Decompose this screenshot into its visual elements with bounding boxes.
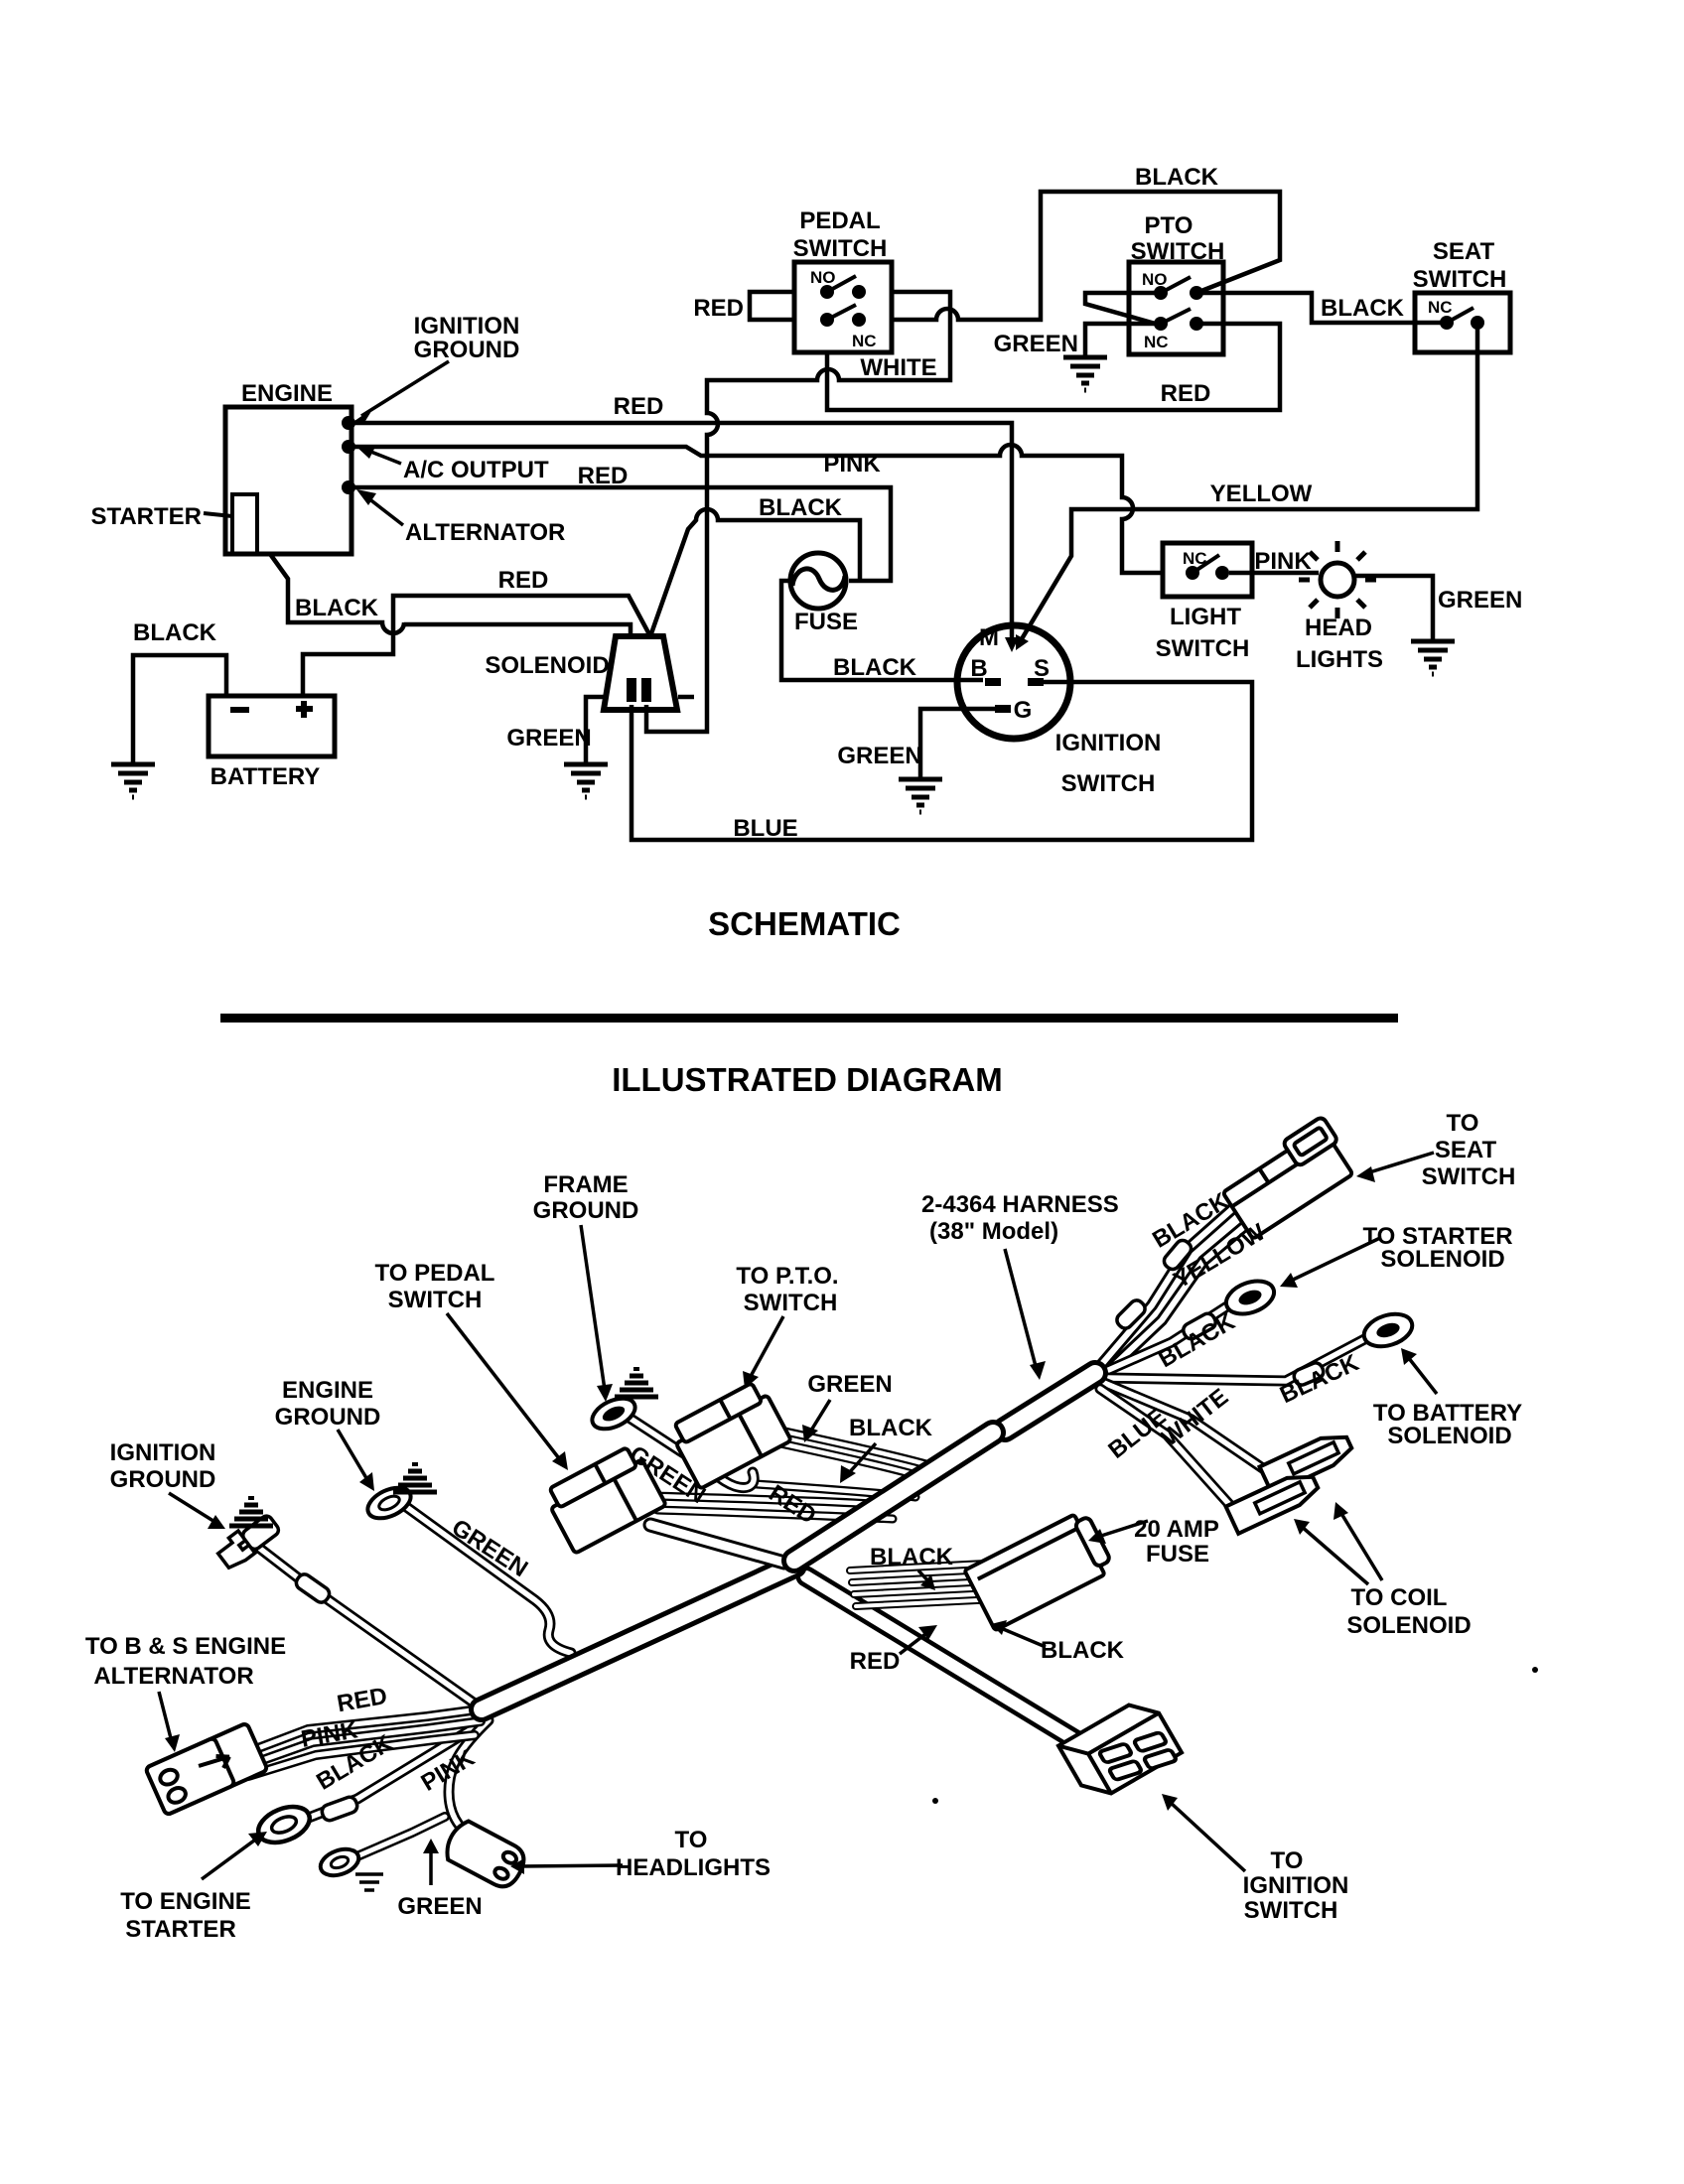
green pigtail ground hatch [355,1874,383,1890]
wire fuse left to ignition B [781,581,983,680]
svg-text:BLACK: BLACK [870,1544,954,1570]
svg-text:GROUND: GROUND [275,1404,381,1431]
light switch box [1163,543,1252,597]
engine ground ring [363,1481,416,1524]
wire YELLOW seat to ignition M [1020,328,1477,642]
battery solenoid ring [1360,1308,1417,1352]
starter tube crimp [1181,1311,1217,1341]
PTO connector [667,1379,791,1489]
svg-text:LIGHT: LIGHT [1170,604,1241,630]
ignition switch circle [957,625,1070,739]
seat tube collar 1 [1162,1238,1194,1273]
svg-text:BLACK: BLACK [1321,295,1405,322]
svg-text:TO: TO [1447,1110,1479,1137]
svg-text:ENGINE: ENGINE [241,380,333,407]
svg-text:RED: RED [1161,380,1211,407]
wire ignition branch tube [806,1576,1082,1744]
starter box [232,494,257,554]
fuse [790,553,846,609]
svg-text:IGNITION: IGNITION [110,1439,216,1466]
frame ground triangle [615,1369,658,1397]
svg-text:ILLUSTRATED DIAGRAM: ILLUSTRATED DIAGRAM [612,1061,1003,1098]
green pigtail ring [317,1844,362,1880]
stray dot [1532,1667,1538,1673]
svg-text:IGNITION: IGNITION [1243,1872,1349,1899]
starter label dash [204,513,232,516]
wire starter solenoid tube [1104,1300,1236,1372]
ignition pin B [985,678,1001,686]
svg-text:RED: RED [498,567,549,594]
svg-text:SOLENOID: SOLENOID [485,652,609,679]
svg-text:SWITCH: SWITCH [1061,770,1156,797]
svg-text:TO: TO [675,1827,708,1853]
M pin arrowhead [1005,637,1019,652]
node alternator pin [342,480,355,494]
ground (battery) [111,764,155,797]
engine box [225,407,351,554]
PTO NO contacts [1154,277,1203,300]
svg-text:FUSE: FUSE [1146,1541,1209,1568]
svg-text:GREEN: GREEN [837,743,921,769]
seat tube collar 2 [1114,1297,1148,1331]
wire battery solenoid tube [1107,1337,1368,1381]
solenoid terminals [627,678,636,702]
wire ignition G to ground [920,709,995,777]
svg-text:SOLENOID: SOLENOID [1380,1246,1504,1273]
svg-text:GREEN: GREEN [807,1371,892,1398]
wire pedal NC row to PTO NO-right (black) [892,192,1280,320]
svg-text:SWITCH: SWITCH [1156,635,1250,662]
svg-text:BATTERY: BATTERY [210,763,321,790]
ignition pin G [995,705,1011,713]
svg-text:SWITCH: SWITCH [388,1287,483,1313]
svg-text:SOLENOID: SOLENOID [1346,1612,1471,1639]
coil spade white [1260,1429,1355,1494]
alternator connector [145,1722,267,1815]
svg-text:BLACK: BLACK [1041,1637,1125,1664]
wire alternator bundle red [250,1709,479,1751]
solenoid right stub [678,695,694,700]
seat switch box [1415,293,1510,352]
svg-text:RED: RED [850,1648,901,1675]
wire PTO NO-right to seat switch (black) [1201,293,1442,323]
svg-text:RED: RED [614,393,664,420]
pedal switch box [794,262,892,352]
svg-text:NC: NC [1144,333,1169,351]
ignition red crimp [294,1571,333,1605]
engine ground triangle [393,1464,437,1492]
svg-text:SCHEMATIC: SCHEMATIC [708,905,901,942]
wire pedal NC-left down to red loop [827,324,1280,410]
wire battery plus to solenoid top (red) [303,596,650,696]
PTO NC-left to ground [1085,324,1156,355]
svg-text:BLUE: BLUE [733,815,797,842]
node A/C output pin [342,440,355,454]
svg-text:M: M [979,624,999,651]
battery minus mark [230,707,249,713]
pedal left stub [750,292,794,320]
svg-text:NO: NO [810,268,836,287]
svg-text:PINK: PINK [1254,548,1312,575]
svg-text:SWITCH: SWITCH [1131,238,1225,265]
svg-text:SWITCH: SWITCH [1422,1163,1516,1190]
wire battery minus to ground (black) [133,655,226,762]
solenoid left stub to ground [586,697,608,762]
fuse holder [964,1509,1115,1630]
svg-text:PTO: PTO [1145,212,1193,239]
ground (headlights) [1411,641,1455,674]
svg-text:NC: NC [1428,298,1453,317]
ignition ground spade fork [214,1511,282,1571]
svg-text:YELLOW: YELLOW [1210,480,1313,507]
svg-text:GREEN: GREEN [994,331,1078,357]
wire green pigtail [359,1817,445,1855]
wire pedal connector main tube [650,1525,784,1563]
svg-text:IGNITION: IGNITION [414,313,520,340]
pedal NO contacts [820,276,866,299]
wire BLUE solenoid to ignition S [631,682,1252,840]
wire solenoid top to fuse right (line C) [650,509,860,636]
svg-text:B: B [970,655,987,682]
svg-text:GREEN: GREEN [397,1893,482,1920]
wire blue spade tube [1100,1389,1235,1511]
svg-text:TO P.T.O.: TO P.T.O. [736,1263,838,1290]
wire engine ground green tube [405,1506,571,1653]
svg-text:GREEN: GREEN [1438,587,1522,614]
svg-text:GROUND: GROUND [414,337,520,363]
svg-text:PEDAL: PEDAL [799,207,880,234]
wire RED engine to ignition M (red1) [354,423,1012,640]
svg-text:GROUND: GROUND [110,1466,216,1493]
svg-text:HEAD: HEAD [1305,614,1372,641]
svg-text:SOLENOID: SOLENOID [1387,1423,1511,1449]
wire trunk lower (junction to alternator cap) [482,1566,794,1709]
pedal NC contacts [820,305,866,327]
engine starter ring [253,1800,315,1849]
wire PINK engine to light switch [354,445,1163,573]
svg-text:LIGHTS: LIGHTS [1296,646,1383,673]
svg-text:SWITCH: SWITCH [744,1290,838,1316]
svg-text:TO ENGINE: TO ENGINE [120,1888,251,1915]
svg-text:GREEN: GREEN [506,725,591,751]
light switch contacts [1186,555,1229,580]
svg-text:SWITCH: SWITCH [1244,1897,1338,1924]
solenoid body [604,636,677,710]
wire pedal connector thin wires [655,1496,893,1519]
svg-text:BLACK: BLACK [833,654,917,681]
A/C output arrow [363,449,401,464]
wire fuse wires (4) [850,1562,1037,1606]
wire pink headlight tube [449,1720,489,1841]
svg-text:HEADLIGHTS: HEADLIGHTS [616,1854,771,1881]
wire pedal NO to solenoid (white) [646,292,950,732]
wire ignition ground red tube [260,1549,475,1704]
divider bar [220,1014,1398,1023]
wire starter to solenoid (black) [270,554,631,635]
wire trunk main (hub to junction) [794,1373,1095,1561]
wire engine starter black tube [301,1727,475,1821]
svg-text:NO: NO [1142,270,1168,289]
seat NC contacts [1440,308,1484,330]
starter black crimp [320,1795,358,1822]
svg-text:SWITCH: SWITCH [793,235,888,262]
wire alternator bundle pink [254,1721,481,1763]
svg-text:IGNITION: IGNITION [1055,730,1162,756]
ignition ground triangle [229,1498,273,1526]
wire alternator bundle black [248,1735,475,1776]
headlights lamp [1299,541,1376,618]
battery tube crimp [1292,1361,1326,1387]
ground (ignition G) [899,779,942,812]
ignition connector [1058,1695,1184,1809]
headlight connector [441,1818,530,1892]
pedal connector [542,1443,666,1554]
wire headlights to ground [1354,576,1433,639]
ground (pto) [1063,357,1107,390]
svg-text:STARTER: STARTER [125,1916,236,1943]
svg-text:BLACK: BLACK [759,494,843,521]
ignition pin S [1028,678,1044,686]
wire RED alternator to fuse (red2) [354,487,891,581]
svg-text:SEAT: SEAT [1433,238,1495,265]
wire light switch to headlights [1229,571,1319,576]
battery plus mark [296,701,313,718]
coil spade blue [1226,1468,1322,1534]
stray dot [932,1798,938,1804]
svg-text:BLACK: BLACK [849,1415,933,1441]
node ignition ground pin [342,416,355,430]
svg-text:ALTERNATOR: ALTERNATOR [93,1663,253,1690]
svg-text:2-4364 HARNESS: 2-4364 HARNESS [921,1191,1119,1218]
svg-text:BLACK: BLACK [295,595,379,621]
svg-text:RED: RED [578,463,629,489]
ignition ground arrow [361,361,449,416]
wire white spade tube [1104,1383,1267,1471]
wire seat black tube [1100,1201,1241,1366]
PTO switch box [1129,262,1223,354]
svg-text:(38" Model): (38" Model) [929,1218,1058,1245]
wire frame ground green tube [628,1417,754,1488]
svg-text:GROUND: GROUND [533,1197,639,1224]
svg-text:TO B & S ENGINE: TO B & S ENGINE [85,1633,286,1660]
svg-text:G: G [1014,697,1033,724]
svg-text:NC: NC [852,332,877,350]
svg-text:SEAT: SEAT [1435,1137,1497,1163]
svg-text:SWITCH: SWITCH [1413,266,1507,293]
svg-text:ALTERNATOR: ALTERNATOR [405,519,565,546]
alternator arrow [363,494,403,525]
PTO jumper NO-left to NC-left [1085,293,1159,325]
battery box [209,696,335,756]
svg-text:NC: NC [1183,549,1207,568]
ground (solenoid) [564,764,608,797]
svg-text:S: S [1034,655,1050,682]
wire seat yellow tube [1105,1219,1253,1374]
starter solenoid ring [1221,1275,1278,1319]
svg-text:STARTER: STARTER [90,503,202,530]
svg-text:TO: TO [1271,1847,1304,1874]
svg-text:FRAME: FRAME [543,1171,628,1198]
svg-text:TO COIL: TO COIL [1351,1584,1448,1611]
svg-text:RED: RED [693,295,744,322]
svg-text:TO PEDAL: TO PEDAL [375,1260,495,1287]
svg-text:PINK: PINK [823,451,881,478]
wire PTO connector thin wires [757,1431,940,1497]
frame ground ring [588,1392,640,1434]
svg-text:BLACK: BLACK [133,619,217,646]
svg-text:ENGINE: ENGINE [282,1377,373,1404]
svg-text:FUSE: FUSE [794,609,858,635]
svg-text:BLACK: BLACK [1135,164,1219,191]
svg-text:WHITE: WHITE [860,354,936,381]
PTO NC contacts [1154,309,1203,331]
svg-text:A/C OUTPUT: A/C OUTPUT [403,457,549,483]
seat connector [1217,1116,1358,1239]
